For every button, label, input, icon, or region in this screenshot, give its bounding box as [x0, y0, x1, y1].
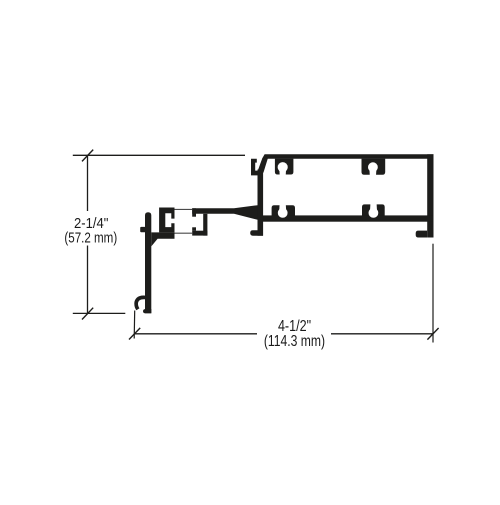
screw boss top-right (slot)	[369, 167, 376, 175]
vertical dimension line (lower segment)	[87, 246, 89, 314]
sash left stub	[140, 227, 145, 232]
screw boss bottom-right (body)	[362, 204, 385, 215]
svg-text:(114.3 mm): (114.3 mm)	[264, 333, 325, 350]
screw boss top-right (hole)	[368, 162, 378, 172]
right extension line of horizontal dimension	[432, 244, 434, 343]
frame arm left lip	[192, 208, 196, 216]
left extension line of horizontal dimension	[133, 311, 136, 339]
oblique tick bottom-right	[427, 328, 438, 340]
snap hook channel left of top wall	[251, 159, 261, 176]
top extension line	[73, 154, 245, 156]
screw boss bottom-right (slot)	[370, 204, 377, 213]
horizontal dimension line (right segment)	[331, 333, 433, 335]
screw boss bottom-left (hole)	[278, 208, 288, 218]
sash bottom hook	[134, 295, 145, 310]
oblique tick top	[82, 150, 93, 162]
thermal break strip top	[175, 208, 193, 210]
oblique tick bottom-left	[129, 328, 140, 340]
sash lower bar with fillet	[151, 232, 174, 246]
main tube left leg	[258, 170, 264, 236]
frame bottom bar left lip	[192, 227, 196, 230]
bottom extension line of vertical dimension	[73, 312, 126, 314]
frame central vertical	[203, 214, 207, 236]
screw boss top-left (slot)	[279, 167, 286, 175]
diagonal strut	[258, 159, 268, 173]
main tube bottom wall	[260, 215, 434, 221]
screw boss bottom-left (body)	[272, 205, 295, 215]
oblique tick bottom	[82, 308, 93, 320]
horizontal dimension line (left segment)	[135, 333, 258, 335]
screw boss top-left (body)	[275, 159, 294, 175]
screw boss bottom-right (hole)	[369, 208, 379, 218]
frame arm with wedge	[192, 205, 257, 220]
right wall bottom foot	[416, 231, 428, 238]
main tube top wall	[262, 154, 434, 158]
svg-text:(57.2 mm): (57.2 mm)	[64, 230, 117, 246]
screw boss bottom-left (slot)	[279, 205, 286, 213]
sash C-channel	[159, 208, 174, 233]
sash leg bottom foot	[143, 309, 151, 313]
screw boss top-right (body)	[362, 159, 386, 175]
thermal break strip bottom	[175, 232, 193, 234]
vertical dimension line (upper segment)	[87, 155, 89, 211]
screw boss top-left (hole)	[278, 162, 288, 172]
main tube right wall	[427, 154, 433, 237]
left leg bottom foot	[250, 230, 263, 235]
frame bottom bar	[192, 231, 207, 236]
sash long leg	[145, 212, 151, 313]
